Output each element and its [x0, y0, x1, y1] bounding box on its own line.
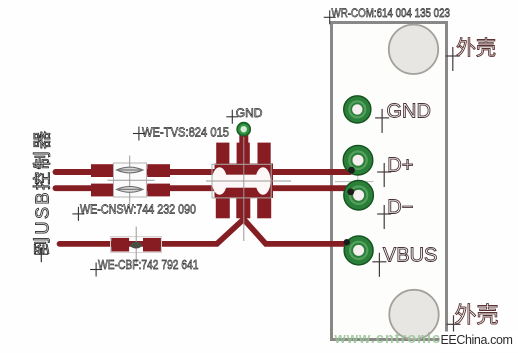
- anchor cross for pin label D+: [377, 163, 391, 187]
- ferrite bead FB1 pad right: [143, 238, 161, 252]
- connector J1 WR-COM body outline: [332, 23, 447, 340]
- choke L1 WE-CNSW pad bottom-left: [91, 184, 113, 197]
- mounting hole top (外壳): [389, 25, 438, 74]
- junction dot D+: [348, 167, 355, 174]
- junction dot D-: [347, 188, 354, 195]
- anchor cross for WE-CNSW label: [72, 207, 84, 221]
- ferrite bead FB1 pad left: [111, 238, 129, 252]
- ferrite bead FB1 element symbol: [130, 242, 141, 249]
- TVS D1 centerline horizontal: [206, 180, 291, 182]
- thin alignment line vertical between pads: [357, 162, 359, 193]
- svg-text:外壳: 外壳: [456, 37, 496, 60]
- TVS D1 pad top-right: [258, 143, 271, 166]
- TVS D1 white right lobe cutout: [255, 167, 270, 195]
- anchor cross for GND via label: [226, 110, 238, 124]
- anchor cross for pin label D-: [377, 205, 391, 229]
- svg-text:D+: D+: [387, 155, 413, 177]
- TVS D1 centerline vertical: [243, 137, 245, 241]
- TVS D1 pad bottom-right: [257, 197, 271, 219]
- wire D- trace: [56, 185, 351, 191]
- anchor cross for left controller label: [34, 247, 48, 262]
- anchor cross for WE-CBF label: [90, 263, 102, 277]
- anchor cross for WR-COM label: [324, 10, 336, 24]
- svg-text:WE-TVS:824 015: WE-TVS:824 015: [142, 126, 229, 140]
- svg-text:WR-COM:614 004 135 023: WR-COM:614 004 135 023: [332, 6, 451, 20]
- choke L1 winding symbol top: [117, 167, 144, 173]
- GND via: [236, 122, 251, 137]
- connector pin GND ring: [344, 96, 371, 123]
- choke L1 winding symbol bottom: [117, 187, 144, 193]
- choke L1 WE-CNSW body: [114, 163, 147, 197]
- anchor cross for shell label bottom: [447, 315, 461, 339]
- anchor cross for WE-TVS label: [133, 127, 145, 141]
- TVS D1 body outline: [212, 164, 271, 198]
- wire VBUS trace with peak through TVS: [60, 219, 347, 244]
- svg-text:EEChina.com: EEChina.com: [441, 333, 513, 347]
- mounting hole bottom (外壳): [389, 290, 438, 339]
- choke L1 WE-CNSW pad top-right: [147, 164, 170, 177]
- TVS D1 white left lobe cutout: [212, 167, 227, 195]
- choke L1 centerline horizontal: [108, 179, 155, 181]
- junction dot VBUS: [344, 239, 350, 245]
- TVS D1 middle copper band: [215, 164, 274, 199]
- svg-text:D−: D−: [387, 197, 413, 219]
- choke L1 WE-CNSW pad bottom-right: [147, 184, 170, 197]
- choke L1 winding bottom center line: [117, 188, 143, 190]
- svg-text:GND: GND: [387, 100, 431, 122]
- choke L1 centerline vertical: [129, 156, 131, 205]
- choke L1 winding top center line: [117, 169, 143, 171]
- anchor cross for pin label GND: [375, 109, 389, 133]
- TVS D1 white channel cutout: [220, 175, 264, 188]
- connector pin D+ ring: [343, 145, 373, 175]
- anchor cross for shell label top: [446, 47, 460, 71]
- svg-text:WE-CNSW:744 232 090: WE-CNSW:744 232 090: [80, 202, 196, 216]
- thin alignment line between D+ and D- pads: [335, 181, 374, 183]
- anchor cross for pin label VBUS: [372, 253, 386, 277]
- TVS D1 pad top-left: [216, 143, 229, 166]
- svg-text:VBUS: VBUS: [383, 244, 437, 266]
- choke L1 WE-CNSW pad top-left: [91, 164, 113, 177]
- connector pin VBUS ring: [344, 236, 373, 265]
- TVS D1 WE-TVS stem to GND via: [239, 129, 248, 145]
- svg-text:WE-CBF:742 792 641: WE-CBF:742 792 641: [98, 258, 199, 272]
- TVS D1 pad bottom-middle: [236, 197, 250, 219]
- ferrite bead FB1 centerline vertical: [135, 227, 137, 264]
- TVS D1 pad top-middle: [237, 143, 250, 166]
- svg-text:GND: GND: [236, 106, 263, 120]
- svg-text:外壳: 外壳: [455, 303, 499, 328]
- ferrite bead FB1 WE-CBF outline: [111, 237, 162, 253]
- TVS D1 pad bottom-left: [216, 197, 230, 219]
- watermark white box: [440, 332, 518, 352]
- connector pin D- ring: [344, 180, 374, 210]
- wire D+ trace: [56, 169, 351, 175]
